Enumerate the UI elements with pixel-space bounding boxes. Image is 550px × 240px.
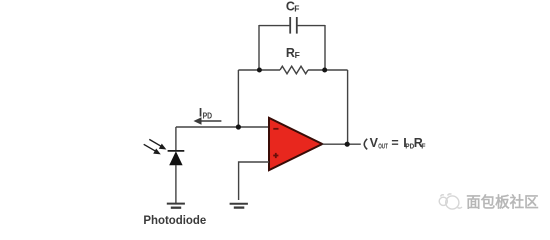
capacitor C_F plates xyxy=(290,17,297,34)
svg-text:=: = xyxy=(391,136,398,150)
arrow I_PD current direction xyxy=(194,117,222,125)
wire output xyxy=(322,143,361,145)
wire R_F line right segment xyxy=(308,69,348,71)
photodiode D1 cathode bar xyxy=(168,150,185,152)
photodiode D1 triangle xyxy=(169,151,182,165)
wire feedback left vertical xyxy=(237,70,239,127)
wire photodiode bottom xyxy=(175,165,177,204)
label I_PD xyxy=(199,106,212,121)
junction dot right of R_F xyxy=(322,68,327,73)
node output junction dot xyxy=(345,142,350,147)
junction dot left of R_F xyxy=(257,68,262,73)
wire feedback right vertical xyxy=(347,70,349,144)
light arrow lower xyxy=(144,144,161,154)
op-amp minus sign xyxy=(273,128,278,130)
light arrow upper xyxy=(149,139,166,149)
svg-text:F: F xyxy=(294,4,299,14)
wire photodiode top xyxy=(175,127,177,151)
svg-text:PD: PD xyxy=(203,112,213,121)
svg-text:OUT: OUT xyxy=(378,143,388,150)
wire top-right of C_F xyxy=(297,25,325,27)
svg-text:R: R xyxy=(286,46,295,60)
svg-text:Photodiode: Photodiode xyxy=(143,213,206,227)
svg-text:F: F xyxy=(295,50,300,60)
resistor R_F label xyxy=(286,46,300,60)
watermark logo xyxy=(439,194,462,209)
wire C_F right vertical xyxy=(324,25,326,70)
output terminal xyxy=(364,139,367,150)
wire non-inverting input xyxy=(239,162,269,200)
capacitor C_F label xyxy=(286,0,300,14)
ground photodiode xyxy=(167,204,185,208)
svg-text:F: F xyxy=(421,143,426,150)
node inverting input junction dot xyxy=(236,124,241,129)
op-amp plus sign xyxy=(273,153,278,158)
label V_OUT = I_PD R_F xyxy=(370,136,427,151)
wire C_F left vertical xyxy=(258,25,260,70)
resistor R_F zigzag xyxy=(280,66,308,74)
op-amp U1 xyxy=(269,118,322,170)
wire inverting input xyxy=(176,126,269,128)
svg-text:面包板社区: 面包板社区 xyxy=(466,193,539,211)
wire R_F line left segment xyxy=(238,69,280,71)
wire top-left of C_F xyxy=(259,25,290,27)
ground op-amp non-inverting xyxy=(230,204,248,208)
